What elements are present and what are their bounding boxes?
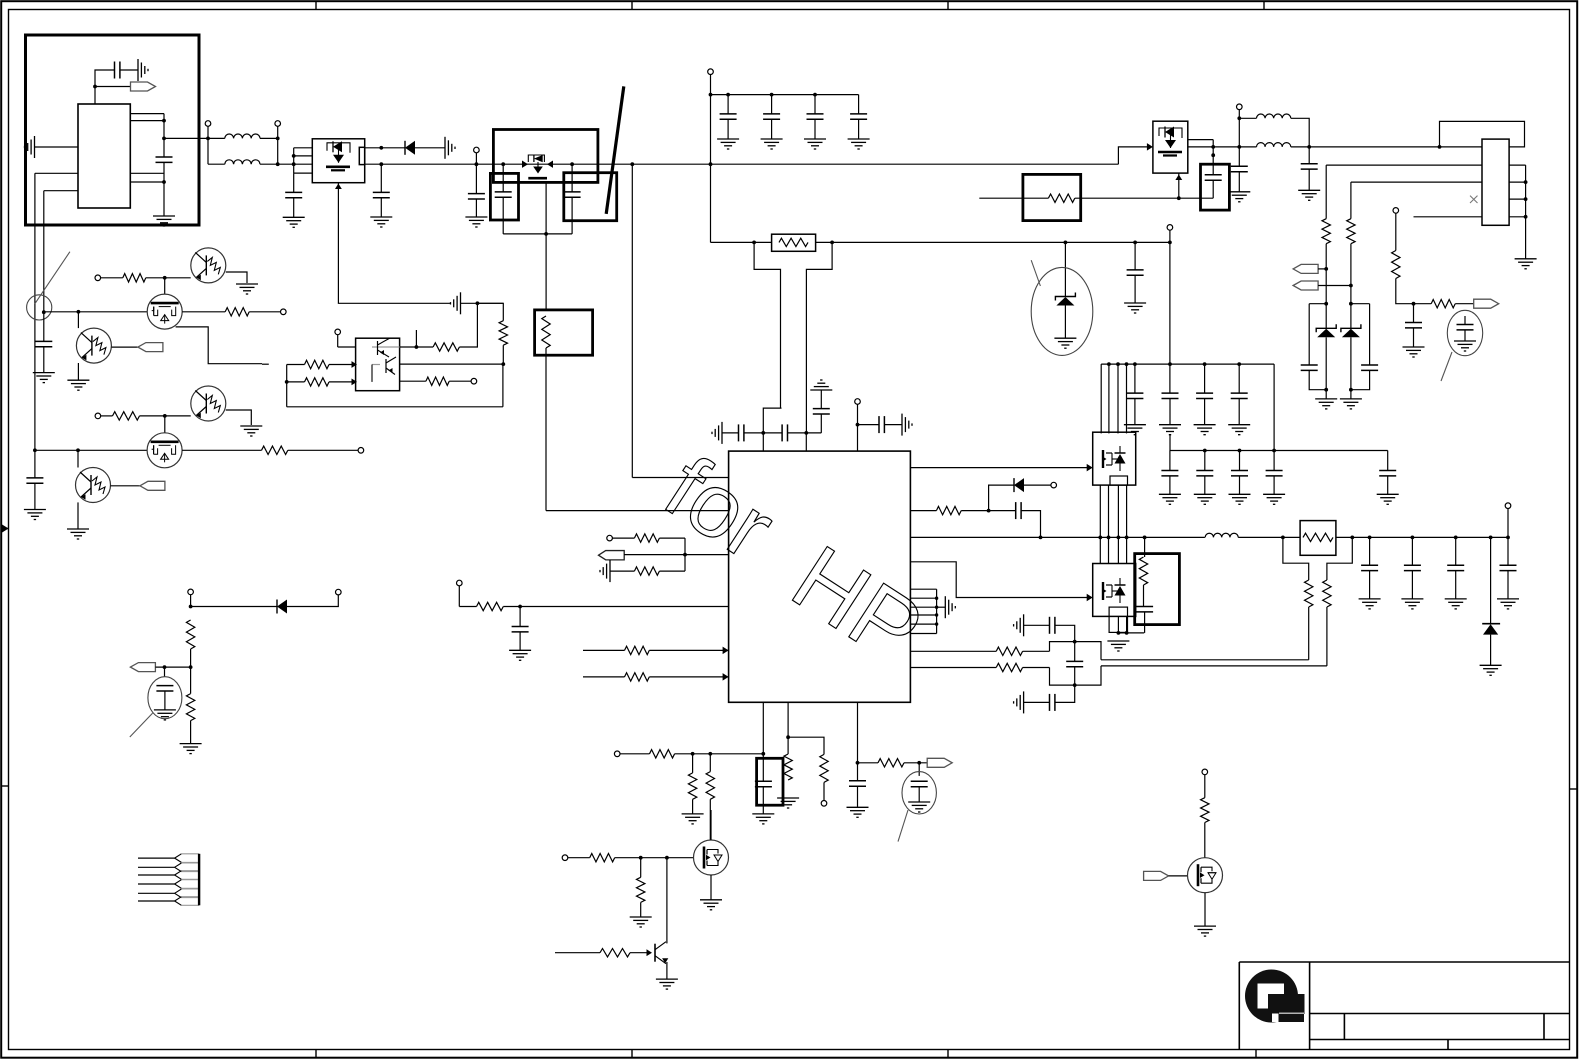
wire C36 gnd (1273, 476, 1275, 494)
main rail wire (381, 163, 1118, 165)
wire C21 out (788, 432, 822, 434)
port P18 (1505, 503, 1511, 509)
callout leader left (35, 252, 70, 304)
resistor R25 (634, 534, 659, 542)
ground under C14 (1228, 192, 1250, 202)
ground in TP2 (164, 691, 166, 710)
bus vertical 4 (1126, 364, 1128, 433)
node sense mid (501, 362, 505, 366)
capacitor C17 branch (1308, 304, 1310, 365)
capacitor C37 (1379, 471, 1396, 476)
wire C16 ground (1413, 328, 1415, 347)
wire C24 gnd (519, 632, 521, 650)
ground under C12 (1124, 303, 1146, 313)
filter top branch (1014, 614, 1050, 636)
wire R33 top (1144, 537, 1146, 557)
node bus (1203, 362, 1207, 366)
arrow Q1 bottom (335, 184, 342, 190)
wire C32 gnd (1238, 399, 1240, 425)
mid bus 1 (1099, 485, 1101, 563)
wire drive to IC (632, 477, 728, 479)
wire C42 gnd (1507, 571, 1509, 599)
no-connect X mark (1470, 196, 1478, 203)
arrow Q3 source (1175, 175, 1182, 181)
transistor Q8 (76, 468, 111, 503)
snubber cap C6 lead (502, 164, 504, 192)
resistor R18 (113, 412, 140, 420)
wire R22 corner (459, 303, 477, 347)
mid bus 2 (1108, 485, 1110, 563)
ground under C8 (717, 139, 739, 149)
wire U3 out1 (910, 467, 1091, 469)
node bank cap 1 (726, 93, 730, 97)
node Q3 out b (1211, 153, 1215, 157)
J1 right pin 2 (1509, 181, 1526, 183)
capacitor C25 (1016, 502, 1021, 519)
wire C38 out (1144, 612, 1146, 633)
MOSFET module Q3 box (1153, 121, 1188, 173)
node nb bot (1073, 683, 1077, 687)
wire C30 gnd (1169, 399, 1171, 425)
node row537 (1107, 536, 1111, 540)
node fb (683, 553, 687, 557)
capacitor C43 (755, 781, 772, 786)
node nb top (1073, 640, 1077, 644)
node cap tap (1133, 241, 1137, 245)
controller IC U3 (729, 451, 911, 702)
wire R40 gnd (692, 799, 694, 814)
node row537 (1125, 536, 1129, 540)
wire U3 sense1 (910, 650, 996, 652)
title block frame (1239, 962, 1569, 1050)
port P4 (708, 69, 714, 75)
resistor R26 (634, 567, 659, 575)
wire D4 port (287, 595, 338, 607)
wire L5 out (1238, 536, 1300, 538)
stub L path (176, 327, 262, 364)
wire C13 link (1179, 197, 1213, 199)
wire U1 stub C (130, 172, 164, 174)
node out a (1281, 536, 1285, 540)
node za1 (1324, 302, 1328, 306)
node tp3 (917, 761, 921, 765)
ground under Q13 (656, 979, 678, 989)
node sense div (1412, 302, 1416, 306)
wire Q4 out (182, 311, 225, 313)
wire C30 bus2 (1169, 434, 1171, 451)
choke tie right (277, 138, 279, 164)
long sense row 1 (1101, 659, 1309, 661)
wire to flag (95, 86, 131, 88)
diode D4 (277, 600, 287, 614)
resistor R16 (123, 274, 146, 282)
node out row (1506, 536, 1510, 540)
callout leader TP3 (898, 810, 908, 842)
resistor R41 (706, 772, 714, 800)
node bypass R (830, 241, 834, 245)
U3 top cap row (712, 422, 739, 444)
sense tap left (1283, 537, 1309, 580)
resistor R36 (1323, 580, 1331, 607)
wire Q8 flag (111, 485, 140, 487)
border tick right (1570, 788, 1577, 790)
divider R net A (1325, 165, 1327, 219)
zener assy top left link (1309, 303, 1326, 305)
aux cap branch (820, 414, 822, 433)
border arrow left (1, 528, 8, 530)
wire R37 R38 (190, 649, 192, 694)
wire Q6 emitter (226, 410, 252, 425)
chassis ground left of U1 (25, 136, 35, 158)
rail B vertical (43, 191, 45, 313)
wire C39 gnd (1369, 571, 1371, 599)
capacitor C7 (564, 192, 581, 197)
capacitor C27 (1050, 617, 1055, 634)
port P5 drop (1169, 230, 1171, 242)
mid bus 4 (1126, 485, 1128, 563)
wire P12 to U2 (338, 346, 356, 348)
port P7 (1393, 208, 1399, 214)
wire Q12 drain (710, 810, 712, 840)
node ZD3 (1349, 388, 1353, 392)
MOSFET module Q1 box (312, 139, 364, 183)
resistor R45 (590, 854, 615, 862)
wire J1 pin B (1351, 181, 1482, 183)
callout ellipse ZD1 (1031, 267, 1093, 355)
Q11 bottom bus a (1117, 616, 1119, 633)
capacitor C20 (739, 424, 744, 441)
diode D2 (1014, 478, 1024, 492)
signal flag Q8 (140, 481, 165, 490)
MOSFET Q7 (147, 433, 182, 468)
signal flag FB (599, 551, 625, 560)
wire vertical join (163, 114, 165, 139)
node row537 (1143, 536, 1147, 540)
node U2 bus (285, 380, 289, 384)
wire to L3 (1239, 117, 1256, 119)
wire R28 U3 (649, 649, 728, 651)
wire R27 U3 (503, 606, 728, 608)
inductor L1 (225, 134, 260, 138)
wire R30 node (961, 510, 1016, 512)
ground under C11 (848, 139, 870, 149)
node module left bus 2 (292, 162, 296, 166)
resistor R22 (433, 343, 459, 351)
resistor R43 (820, 754, 828, 782)
capacitor C11 (858, 95, 860, 114)
wire Q7 out (182, 449, 261, 451)
U2 internals (372, 338, 400, 382)
ground under Q12 (700, 900, 722, 910)
U2 left bus (286, 365, 288, 407)
port P3 (474, 147, 480, 153)
U2 out1 stub up (415, 330, 417, 347)
capacitor C26 (1074, 642, 1076, 662)
ground under C24 (509, 650, 531, 660)
resistor R13 (1347, 219, 1355, 244)
port P10 (95, 413, 101, 419)
resistor R31 (996, 647, 1022, 655)
Q1 bottom pin wire (338, 183, 450, 304)
capacitor C2 (163, 138, 165, 157)
node out row (1411, 536, 1415, 540)
node ZD2 (1324, 388, 1328, 392)
wire R12 down (1325, 244, 1327, 329)
arrow Q13 base (647, 949, 653, 956)
wire flag B (1318, 285, 1351, 287)
wire flag D (155, 666, 190, 668)
wire L2 out (260, 163, 278, 165)
wire C5 ground (475, 199, 477, 217)
bus2 row (1170, 450, 1388, 452)
resistor R11 (1048, 194, 1074, 202)
resistor R42 (784, 754, 792, 780)
ground under R38 (180, 744, 202, 754)
node P6 (1237, 116, 1241, 120)
resistor R14 (1392, 251, 1400, 279)
wire C43 gnd (762, 787, 764, 814)
wire C10 ground (814, 119, 816, 139)
SR MOSFET Q11 box (1093, 564, 1136, 617)
zener assy top right link (1351, 303, 1370, 305)
ZD3 down (1350, 337, 1352, 399)
port P22 (821, 801, 827, 807)
node za2 (1349, 302, 1353, 306)
wire t3 cap (858, 424, 880, 426)
transistor Q5 (76, 328, 111, 363)
node div (189, 665, 193, 669)
cap bank bus (711, 94, 859, 96)
wire C28 corner (1055, 685, 1075, 702)
wire bp3 R44 (858, 762, 879, 764)
node bus (1133, 362, 1137, 366)
node flag A (1324, 267, 1328, 271)
chassis ground right of D1 (445, 137, 455, 159)
wire gnd to node (461, 302, 504, 304)
ground under Q8 (67, 529, 89, 539)
arrow into Q3 (1147, 143, 1153, 150)
diode D2 branch (989, 485, 1014, 511)
wire D3 gnd (1490, 635, 1492, 666)
ground under C16 (1403, 347, 1425, 357)
resistor R17 (225, 308, 249, 316)
node gate1 top (163, 276, 167, 280)
rail A vertical (34, 173, 36, 478)
sense resistor thick box (1023, 174, 1081, 220)
J1 right pin 1 (1509, 164, 1526, 166)
wire C31 gnd (1204, 399, 1206, 425)
bypass left (754, 242, 780, 408)
U2 return row (287, 406, 503, 408)
zener ZD3 (1341, 324, 1361, 337)
node bypass L (752, 241, 756, 245)
wire J1 pin D (1414, 216, 1483, 218)
slash mark (606, 86, 624, 213)
capacitor C10 (814, 95, 816, 114)
resistor R21 (305, 378, 330, 386)
wire to L4 (1239, 146, 1256, 148)
wire R47 Q13 (630, 952, 647, 954)
resistor R33 (1139, 557, 1147, 585)
wire railA ground (34, 483, 36, 509)
ground under R40 (682, 814, 704, 824)
Q5 base drop (77, 312, 79, 328)
node bus2 (1238, 449, 1242, 453)
node rail drop2 (709, 162, 713, 166)
zener ZD2 (1316, 324, 1336, 337)
wire U1 left pin E (35, 172, 78, 174)
capacitor C29 (1134, 364, 1136, 393)
node port tap (1168, 241, 1172, 245)
MOSFET Q10 symbol (1102, 446, 1126, 471)
resistor R32 (996, 663, 1022, 671)
wire ground to U1 (35, 146, 79, 148)
MOSFET Q4 (147, 294, 182, 329)
wire R18 out (140, 415, 165, 417)
sense node box (1050, 642, 1102, 686)
wire opto node corner (477, 303, 503, 320)
timing thick box (757, 758, 783, 805)
connector J1 box (1482, 139, 1509, 225)
wire R46 gnd (640, 902, 642, 917)
node g2 (665, 856, 669, 860)
wire R33 C38 (1143, 585, 1145, 607)
capacitor C28 (1050, 694, 1055, 711)
wire to flag C (1455, 303, 1474, 305)
divider R net B (1350, 182, 1352, 219)
U3 top pin2 lead (805, 433, 807, 451)
node zener tap (1064, 241, 1068, 245)
input module thick box (26, 35, 200, 225)
resistor R12 (1322, 219, 1330, 244)
wire R24 port (449, 380, 471, 382)
switch module thick box (493, 130, 598, 183)
wire U1 pin stub B (130, 120, 164, 122)
ground under D3 (1480, 665, 1502, 675)
capacitor C35 (1239, 451, 1241, 471)
wire gnd R26 (610, 570, 634, 572)
wire U1 stub D (130, 181, 164, 183)
wire C40 gnd (1411, 571, 1413, 599)
ground under C5 (465, 217, 487, 227)
node row537 (1098, 536, 1102, 540)
node out (162, 137, 166, 141)
node Q3 out a (1211, 145, 1215, 149)
chassis ground right C23 (902, 414, 912, 436)
capacitor C40 (1411, 537, 1413, 565)
wire C12 ground (1134, 275, 1136, 303)
wire R26 join (659, 570, 685, 572)
Q3 gate tie (1212, 140, 1214, 156)
wire to L1 (208, 137, 225, 139)
capacitor C24 (519, 607, 521, 627)
capacitor C12 (1134, 242, 1136, 270)
Q2 source bar (528, 177, 547, 180)
rail to bus drop (710, 164, 712, 242)
node row537 (1117, 536, 1121, 540)
stub wire left (262, 363, 269, 365)
signal flag C (1474, 299, 1499, 308)
node U1 pin3 junction (93, 85, 97, 89)
bus2 right corner (1387, 451, 1389, 471)
wire module pin2 (294, 155, 313, 157)
wire R44 flag (904, 762, 927, 764)
wire U2 in2 (287, 381, 305, 383)
Q11 bottom bus b (1126, 616, 1128, 633)
node bus (1168, 362, 1172, 366)
resistor R35 (1305, 580, 1313, 607)
node L2 out (276, 162, 280, 166)
node Q1 top (379, 146, 383, 150)
out row (1336, 536, 1508, 538)
port drop through (1169, 242, 1171, 393)
bus vertical 2 (1108, 364, 1110, 433)
capacitor C31 (1204, 364, 1206, 393)
node L3 join (1307, 145, 1311, 149)
resistor R39 (650, 750, 675, 758)
capacitor C9 (771, 95, 773, 114)
wire J1 pin A (1326, 164, 1482, 166)
node bank cap 2 (770, 93, 774, 97)
capacitor C22 (813, 409, 830, 414)
wire Q9 emitter (226, 272, 247, 283)
wire P8 (101, 277, 123, 279)
wire P10 (101, 415, 113, 417)
wire Q11 link (1118, 632, 1144, 634)
wire C7 down (571, 197, 573, 234)
border tick bottom 2 (631, 1050, 633, 1058)
wire C23 gnd (884, 424, 902, 426)
diode D1 (405, 141, 415, 155)
node C7 (570, 162, 574, 166)
node module left bus 1 (292, 154, 296, 158)
bus vertical 1 (1100, 364, 1102, 433)
resistor R23 (499, 321, 507, 346)
ground rail A (24, 510, 46, 520)
wire ZD1 ground (1064, 306, 1066, 339)
capacitor C15 (1308, 147, 1310, 164)
border tick top 1 (315, 1, 317, 9)
node rail drop1 (630, 162, 634, 166)
node C6 (501, 162, 505, 166)
node bank (709, 93, 713, 97)
ground under ZD1 (1054, 338, 1076, 348)
wire R38 gnd (190, 721, 192, 744)
wire R35 row (1308, 607, 1310, 660)
resistor R29 (625, 673, 650, 681)
MOSFET Q11 symbol (1102, 578, 1126, 603)
watermark text for HP (648, 438, 940, 683)
ground under C44 (847, 807, 869, 817)
port P20 (336, 589, 342, 595)
wire D2 port (1024, 484, 1051, 486)
node bt3 (761, 752, 765, 756)
wire C14 ground (1238, 172, 1240, 192)
U3 bottom pin3 (857, 702, 859, 781)
node rail C5 (475, 162, 479, 166)
node rail A mid (33, 448, 37, 452)
filter bottom branch (1014, 691, 1050, 713)
node J1 p4 (1524, 215, 1528, 219)
node stub D (162, 180, 166, 184)
signal flag Q5 (138, 343, 163, 352)
wire module pin1 (294, 147, 313, 149)
drive line down (631, 164, 633, 477)
capacitor C13 in box (1205, 175, 1222, 180)
inductor L4 (1257, 143, 1291, 147)
port P9 (281, 309, 287, 315)
connector J2 (138, 854, 199, 906)
